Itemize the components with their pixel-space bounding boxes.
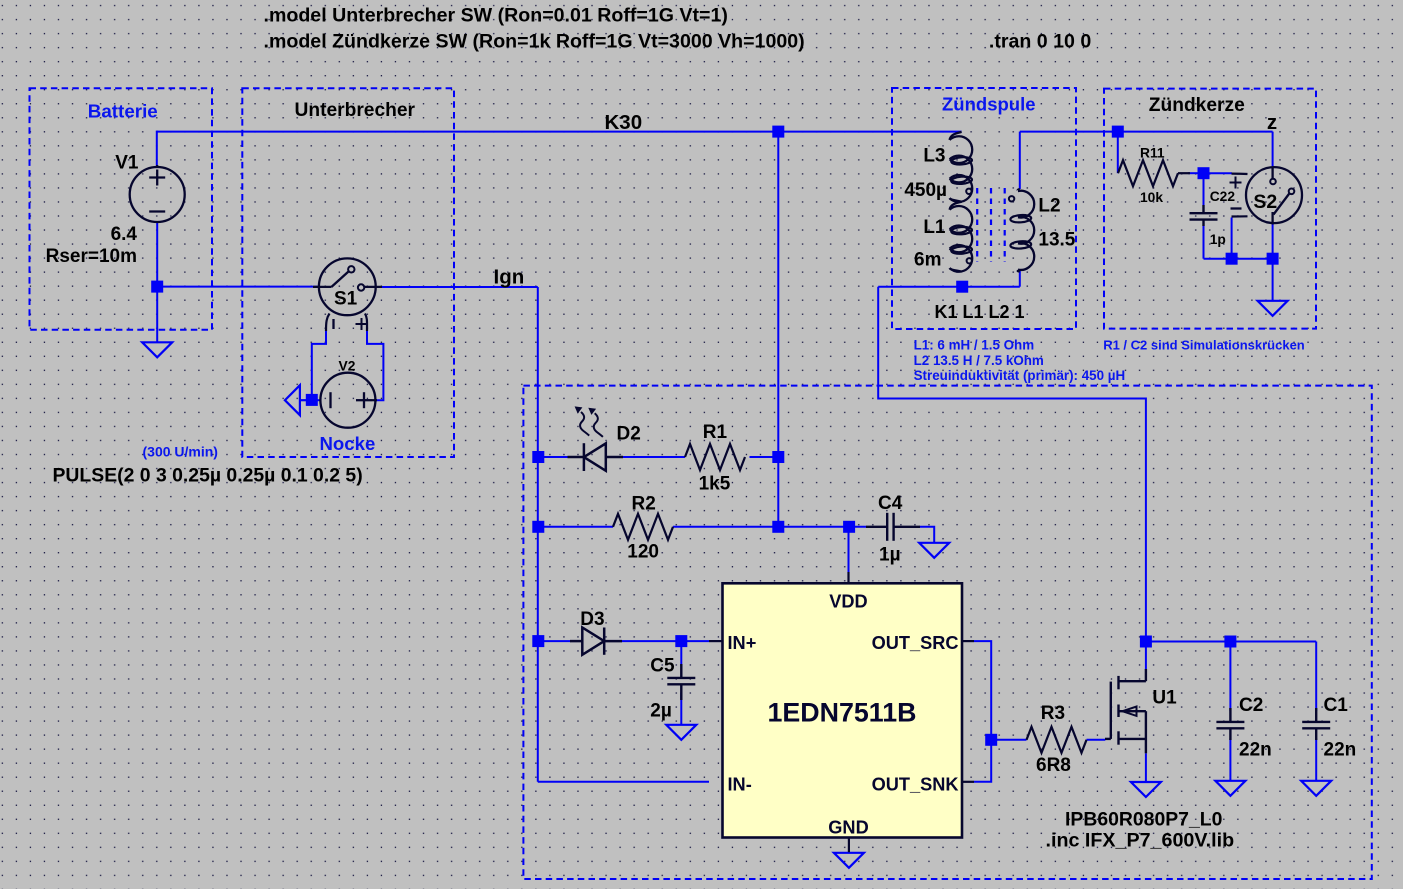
junction Ign-D2 bbox=[532, 451, 544, 463]
wire Ign vertical bbox=[537, 287, 539, 782]
label L3 bbox=[923, 146, 945, 167]
wire S2 bottom to ground bbox=[1272, 224, 1274, 302]
wire C22 node to S2 plus control bbox=[1204, 172, 1233, 174]
label Unterbrecher bbox=[295, 100, 416, 121]
svg-text:R1 / C2 sind Simulationskrücke: R1 / C2 sind Simulationskrücken bbox=[1103, 338, 1305, 353]
capacitor C2 bbox=[1216, 708, 1244, 740]
wire L2 top riser bbox=[1019, 132, 1021, 189]
svg-text:10k: 10k bbox=[1140, 190, 1163, 205]
value Rser=10m bbox=[46, 246, 137, 267]
svg-text:1EDN7511B: 1EDN7511B bbox=[768, 698, 917, 728]
label V2 bbox=[339, 359, 356, 374]
wire K30 drop to driver bbox=[777, 132, 779, 527]
svg-text:.model Unterbrecher SW (Ron=0.: .model Unterbrecher SW (Ron=0.01 Roff=1G… bbox=[264, 5, 728, 27]
wire drop to R11 bbox=[1117, 132, 1119, 174]
Zuendspule section box bbox=[892, 88, 1076, 329]
svg-text:IN+: IN+ bbox=[728, 633, 757, 653]
value 1k5 bbox=[699, 474, 731, 495]
diode D3 bbox=[570, 628, 622, 655]
value PULSE bbox=[53, 465, 363, 487]
wire D3 row left bbox=[538, 640, 571, 642]
capacitor C4 bbox=[866, 513, 920, 541]
pin label GND bbox=[828, 818, 868, 838]
wire K30 horizontal bbox=[157, 131, 962, 133]
svg-text:IN-: IN- bbox=[728, 775, 752, 795]
capacitor C22 bbox=[1190, 205, 1218, 226]
svg-text:C4: C4 bbox=[878, 493, 903, 514]
svg-text:C5: C5 bbox=[650, 656, 675, 677]
label R1 bbox=[703, 422, 728, 443]
svg-text:Nocke: Nocke bbox=[320, 433, 376, 454]
svg-text:S1: S1 bbox=[334, 289, 358, 310]
LED D2 emission arrows bbox=[575, 406, 603, 437]
label S1 bbox=[334, 289, 358, 310]
svg-text:PULSE(2 0 3 0.25µ 0.25µ 0.1 0.: PULSE(2 0 3 0.25µ 0.25µ 0.1 0.2 5) bbox=[53, 465, 363, 487]
junction V2-gnd bbox=[306, 394, 318, 406]
svg-text:L3: L3 bbox=[923, 146, 945, 167]
value 6R8 bbox=[1036, 755, 1071, 776]
label C4 bbox=[878, 493, 903, 514]
junction R11 node bbox=[1112, 126, 1124, 138]
label Nocke bbox=[320, 433, 376, 454]
pin label OUT_SNK bbox=[872, 775, 959, 795]
svg-text:22n: 22n bbox=[1324, 740, 1357, 761]
label R2 bbox=[632, 494, 656, 515]
value 450u bbox=[904, 180, 947, 201]
wire coil bottom row bbox=[878, 286, 1020, 288]
pin VDD stub bbox=[847, 572, 849, 584]
svg-text:V2: V2 bbox=[339, 359, 356, 374]
Unterbrecher section box bbox=[242, 88, 454, 457]
resistor R2 bbox=[613, 514, 673, 540]
junction C4 node bbox=[843, 521, 855, 533]
capacitor C5 bbox=[667, 664, 695, 700]
svg-text:R2: R2 bbox=[632, 494, 656, 515]
svg-text:120: 120 bbox=[627, 542, 659, 563]
wire C4 to ground bbox=[920, 527, 935, 544]
wire drain node row bbox=[1146, 641, 1316, 643]
wire R3 row bbox=[991, 739, 1026, 741]
wire S2 top riser bbox=[1272, 132, 1274, 169]
wire R11 to C22 node bbox=[1188, 172, 1204, 174]
svg-text:Rser=10m: Rser=10m bbox=[46, 246, 137, 267]
svg-text:2µ: 2µ bbox=[650, 701, 672, 722]
junction R1 node bbox=[772, 451, 784, 463]
svg-text:C1: C1 bbox=[1324, 695, 1349, 716]
junction C22 node bbox=[1198, 167, 1210, 179]
value 13.5 bbox=[1038, 230, 1075, 251]
net label Ign bbox=[494, 266, 525, 289]
label C1 bbox=[1324, 695, 1349, 716]
ground V2 (rotated left) bbox=[285, 385, 307, 415]
resistor R1 bbox=[685, 444, 745, 470]
svg-text:D3: D3 bbox=[580, 609, 604, 630]
junction C2 node bbox=[1224, 636, 1236, 648]
driver section box bbox=[523, 386, 1371, 879]
svg-text:(300 U/min): (300 U/min) bbox=[143, 444, 218, 460]
label L2 bbox=[1038, 196, 1060, 217]
wire Ign S1 to corner bbox=[376, 286, 538, 288]
pin IN+ stub bbox=[709, 640, 724, 642]
value IPB60R080P7_L0 bbox=[1065, 809, 1222, 831]
junction R2 node bbox=[772, 521, 784, 533]
svg-text:z: z bbox=[1267, 111, 1277, 134]
ground C2 bbox=[1215, 781, 1245, 796]
junction K30 node bbox=[772, 126, 784, 138]
wire C22 bottom row bbox=[1204, 258, 1273, 260]
ground C4 bbox=[919, 543, 949, 558]
label L1 bbox=[923, 217, 946, 238]
comment L2 13.5H bbox=[914, 353, 1044, 368]
svg-text:.inc IFX_P7_600V.lib: .inc IFX_P7_600V.lib bbox=[1046, 830, 1235, 852]
voltage source V2 bbox=[320, 373, 377, 428]
wire to IN- pin bbox=[538, 781, 709, 783]
svg-text:IPB60R080P7_L0: IPB60R080P7_L0 bbox=[1065, 809, 1222, 831]
svg-text:.model Zündkerze SW (Ron=1k Ro: .model Zündkerze SW (Ron=1k Roff=1G Vt=3… bbox=[264, 31, 805, 53]
svg-text:.tran 0 10 0: .tran 0 10 0 bbox=[989, 31, 1091, 53]
Batterie section box bbox=[30, 88, 213, 329]
directive .inc IFX_P7_600V.lib bbox=[1046, 830, 1235, 852]
wire D3 to IN+ node bbox=[622, 640, 710, 642]
wire C1 top bbox=[1315, 642, 1317, 712]
value 22n C2 bbox=[1239, 740, 1272, 761]
comment 300 U/min bbox=[143, 444, 218, 460]
wire R3 to gate bbox=[1087, 739, 1106, 741]
LED D2 bbox=[568, 443, 624, 471]
svg-text:450µ: 450µ bbox=[904, 180, 947, 201]
junction drain node bbox=[1140, 636, 1152, 648]
directive .model Zuendkerze bbox=[264, 31, 805, 53]
svg-text:R1: R1 bbox=[703, 422, 728, 443]
ground C1 bbox=[1301, 781, 1331, 796]
junction R3 node bbox=[985, 734, 997, 746]
svg-text:R11: R11 bbox=[1140, 146, 1165, 161]
svg-text:OUT_SRC: OUT_SRC bbox=[872, 633, 959, 653]
junction battery-S1 bbox=[151, 281, 163, 293]
label C22 bbox=[1210, 189, 1236, 204]
wire C5 bottom to ground bbox=[680, 693, 682, 726]
directive K1 L1 L2 1 bbox=[935, 302, 1025, 322]
value 2u bbox=[650, 701, 672, 722]
value 1u bbox=[879, 545, 901, 566]
wire OUT_SRC to R3 node bbox=[974, 641, 991, 782]
pin label IN- bbox=[728, 775, 752, 795]
wire R2 row left bbox=[538, 526, 613, 528]
wire S2 minus control drop bbox=[1231, 218, 1233, 259]
comment R1 C2 Simulationskruecken bbox=[1103, 338, 1305, 353]
ground C5 bbox=[666, 725, 696, 740]
wire C2 bottom to ground bbox=[1229, 739, 1231, 782]
svg-text:Zündspule: Zündspule bbox=[942, 94, 1036, 115]
svg-text:D2: D2 bbox=[617, 424, 641, 445]
wire battery to S1 bbox=[157, 286, 319, 288]
wire C2 top bbox=[1229, 642, 1231, 712]
directive .model Unterbrecher bbox=[264, 5, 728, 27]
wire C1 bottom to ground bbox=[1315, 739, 1317, 782]
ground U1 source bbox=[1131, 782, 1161, 797]
value 120 bbox=[627, 542, 659, 563]
value 10k bbox=[1140, 190, 1163, 205]
svg-text:GND: GND bbox=[828, 818, 868, 838]
switch S1 bbox=[313, 258, 382, 331]
svg-text:Unterbrecher: Unterbrecher bbox=[295, 100, 416, 121]
resistor R11 bbox=[1118, 160, 1190, 186]
value 6.4 bbox=[111, 224, 138, 245]
wire R2 to node bbox=[673, 526, 778, 528]
wire D2 row left bbox=[538, 456, 568, 458]
junction IN+ node bbox=[675, 635, 687, 647]
pin label IN+ bbox=[728, 633, 757, 653]
svg-text:OUT_SNK: OUT_SNK bbox=[872, 775, 959, 795]
junction Ign-D3 bbox=[532, 635, 544, 647]
pin GND stub bbox=[848, 837, 850, 852]
svg-text:6m: 6m bbox=[914, 250, 941, 271]
svg-text:6.4: 6.4 bbox=[111, 224, 138, 245]
value 22n C1 bbox=[1324, 740, 1357, 761]
svg-text:6R8: 6R8 bbox=[1036, 755, 1071, 776]
svg-text:VDD: VDD bbox=[829, 592, 867, 612]
svg-text:S2: S2 bbox=[1253, 191, 1277, 213]
value 6m bbox=[914, 250, 941, 271]
wire V2 minus stub bbox=[306, 399, 321, 401]
svg-text:Streuinduktivität (primär): 45: Streuinduktivität (primär): 450 µH bbox=[914, 368, 1126, 383]
label D3 bbox=[580, 609, 604, 630]
label V1 bbox=[115, 153, 139, 174]
junction S2 bottom node bbox=[1267, 253, 1279, 265]
wire R1 to node bbox=[750, 456, 779, 458]
svg-text:U1: U1 bbox=[1152, 688, 1177, 709]
svg-text:Zündkerze: Zündkerze bbox=[1149, 95, 1245, 116]
svg-text:1k5: 1k5 bbox=[699, 474, 731, 495]
ground S2 bbox=[1258, 301, 1288, 316]
label R3 bbox=[1041, 703, 1065, 724]
net label z bbox=[1267, 111, 1277, 134]
svg-text:C22: C22 bbox=[1210, 189, 1236, 204]
junction Ign-R2 bbox=[532, 521, 544, 533]
svg-text:1p: 1p bbox=[1210, 232, 1226, 247]
directive .tran bbox=[989, 31, 1091, 53]
switch S2 bbox=[1230, 167, 1303, 224]
svg-text:V1: V1 bbox=[115, 153, 139, 174]
pin OUT_SRC stub bbox=[961, 640, 974, 642]
pin label VDD bbox=[829, 592, 867, 612]
comment Streuinduktivitaet bbox=[914, 368, 1126, 383]
wire V1 bottom to ground bbox=[156, 222, 158, 343]
wire S1 control right bbox=[367, 331, 383, 400]
svg-text:R3: R3 bbox=[1041, 703, 1065, 724]
svg-text:Batterie: Batterie bbox=[88, 101, 158, 122]
label Zuendkerze bbox=[1149, 95, 1245, 116]
wire C22 top bbox=[1203, 173, 1205, 207]
ground battery bbox=[142, 342, 172, 357]
svg-text:13.5: 13.5 bbox=[1038, 230, 1075, 251]
svg-text:C2: C2 bbox=[1239, 695, 1263, 716]
inductor L2 secondary bbox=[1009, 189, 1034, 272]
wire V1 top riser bbox=[156, 131, 158, 168]
svg-text:L2 13.5 H / 7.5 kOhm: L2 13.5 H / 7.5 kOhm bbox=[914, 353, 1044, 368]
wire U1 drain stub bbox=[1145, 642, 1147, 671]
wire L2 bottom stub bbox=[1019, 270, 1021, 287]
resistor R3 bbox=[1027, 727, 1087, 753]
transformer core dashes bbox=[977, 188, 1005, 262]
wire primary to drain path bbox=[878, 287, 1146, 642]
wire U1 source to ground bbox=[1145, 753, 1147, 783]
ground IC GND bbox=[834, 853, 864, 868]
svg-text:K30: K30 bbox=[605, 111, 643, 134]
wire C5 top bbox=[680, 641, 682, 666]
junction coil bottom node bbox=[956, 281, 968, 293]
wire D2 to R1 bbox=[623, 456, 686, 458]
mosfet U1 bbox=[1105, 669, 1146, 753]
svg-text:L2: L2 bbox=[1038, 196, 1060, 217]
label R11 bbox=[1140, 146, 1165, 161]
label S2 bbox=[1253, 191, 1277, 213]
svg-text:1µ: 1µ bbox=[879, 545, 901, 566]
wire S1 control left bbox=[312, 331, 326, 400]
label C5 bbox=[650, 656, 675, 677]
svg-text:L1: 6 mH / 1.5 Ohm: L1: 6 mH / 1.5 Ohm bbox=[914, 338, 1035, 353]
net label K30 bbox=[605, 111, 643, 134]
pin OUT_SNK stub bbox=[961, 781, 974, 783]
svg-text:22n: 22n bbox=[1239, 740, 1272, 761]
wire C22 bottom bbox=[1203, 226, 1205, 259]
label U1 bbox=[1152, 688, 1177, 709]
value 1p bbox=[1210, 232, 1226, 247]
label Zuendspule bbox=[942, 94, 1036, 115]
junction C22 bottom node bbox=[1226, 253, 1238, 265]
pin label OUT_SRC bbox=[872, 633, 959, 653]
inductor L3 primary upper bbox=[950, 132, 973, 202]
wire node to C4 bbox=[778, 526, 866, 528]
svg-text:K1 L1 L2 1: K1 L1 L2 1 bbox=[935, 302, 1025, 322]
label C2 bbox=[1239, 695, 1263, 716]
svg-text:Ign: Ign bbox=[494, 266, 525, 289]
label D2 bbox=[617, 424, 641, 445]
wire VDD riser bbox=[848, 527, 850, 572]
capacitor C1 bbox=[1302, 708, 1330, 740]
IC U 1EDN7511B body bbox=[723, 583, 963, 837]
wire K30 right segment bbox=[1020, 131, 1273, 133]
svg-text:L1: L1 bbox=[923, 217, 946, 238]
voltage source V1 bbox=[130, 165, 185, 222]
label Batterie bbox=[88, 101, 158, 122]
inductor L1 primary lower bbox=[950, 202, 973, 272]
Zuendkerze section box bbox=[1104, 89, 1316, 329]
IC part number 1EDN7511B bbox=[768, 698, 917, 728]
comment L1 6mH bbox=[914, 338, 1035, 353]
